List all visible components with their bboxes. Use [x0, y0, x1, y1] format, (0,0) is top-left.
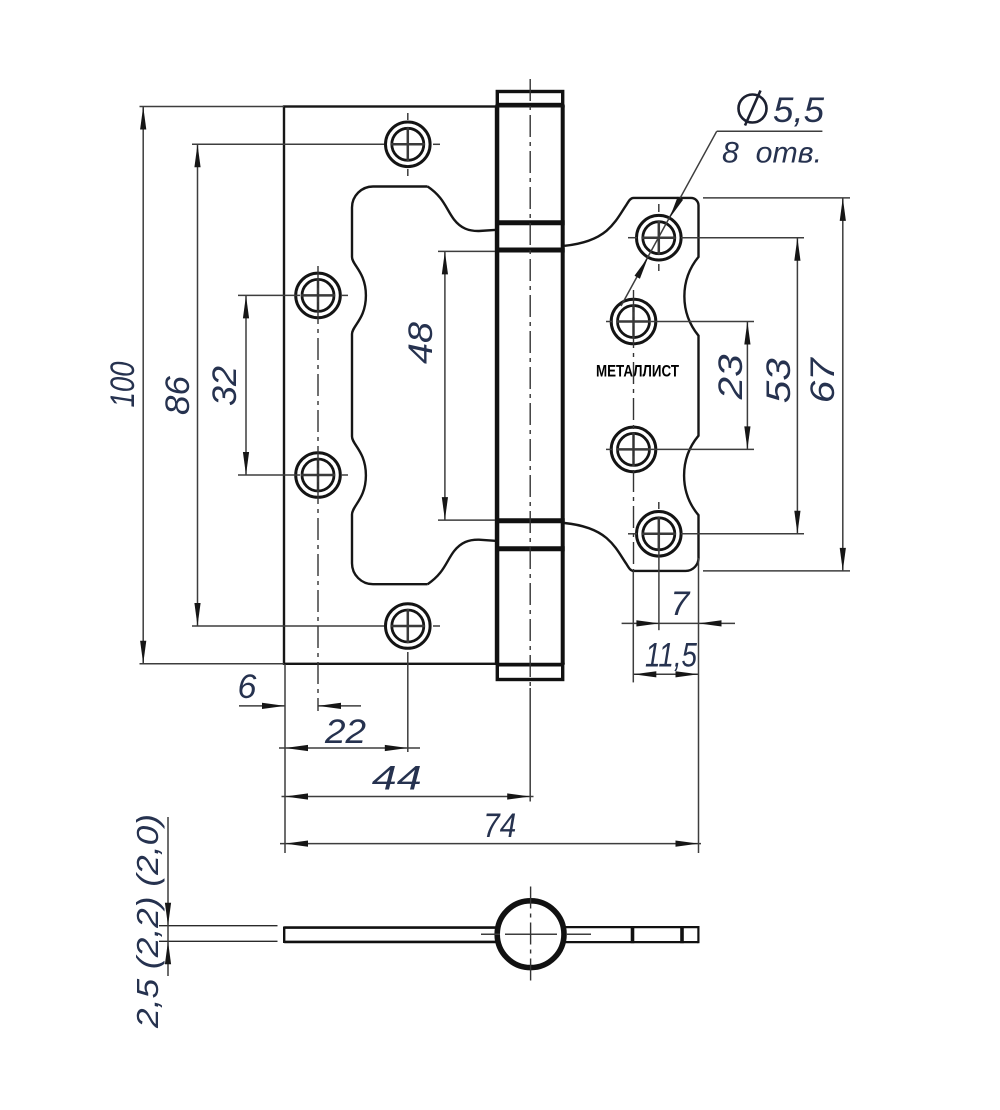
dimension 22 — [279, 713, 420, 751]
leader diameter callout — [621, 91, 825, 307]
centerline hole H4 horizontal dot — [433, 625, 440, 627]
dimension 32 — [206, 295, 300, 475]
svg-text:5,5: 5,5 — [773, 91, 825, 130]
svg-text:86: 86 — [159, 376, 197, 415]
dimension 7 — [622, 534, 735, 630]
centerline hole H7 horizontal dot — [606, 448, 613, 450]
svg-text:22: 22 — [324, 713, 366, 751]
hole H6 right leaf upper-middle — [611, 299, 656, 344]
svg-text:74: 74 — [483, 807, 516, 845]
barrel knuckle band 4 — [495, 546, 564, 551]
centerline hole H3 horizontal dot — [341, 474, 348, 476]
svg-text:67: 67 — [804, 357, 842, 403]
svg-text:11,5: 11,5 — [645, 637, 697, 675]
extension line hole H4 centerline — [407, 652, 409, 752]
svg-text:МЕТАЛЛИСТ: МЕТАЛЛИСТ — [596, 362, 679, 381]
svg-text:44: 44 — [372, 760, 422, 798]
centerline hole H2 horizontal dot — [341, 294, 348, 296]
left leaf cutout — [352, 187, 497, 585]
dimension 74 — [280, 807, 701, 847]
svg-text:53: 53 — [760, 358, 798, 403]
brand text METALLIST — [596, 362, 679, 381]
hole H8 right leaf bottom — [637, 512, 682, 557]
hole H3 left leaf lower — [296, 453, 341, 498]
dimension 48 — [402, 251, 495, 520]
centerline hole H5 horizontal dash — [628, 237, 637, 239]
hole H1 top-left leaf — [386, 122, 431, 167]
barrel bottom thin line (plate bottom level) — [495, 663, 564, 665]
svg-text:100: 100 — [104, 361, 142, 407]
dimension 100 — [104, 107, 284, 664]
barrel knuckle band 3 — [495, 518, 564, 523]
barrel knuckle band 2 — [495, 248, 564, 253]
left leaf outline — [284, 107, 496, 664]
dimension 6 — [238, 668, 361, 709]
svg-text:48: 48 — [402, 322, 440, 364]
dimension 53 — [681, 238, 804, 534]
barrel knuckle band 1 — [495, 220, 564, 225]
dimension 23 — [651, 322, 754, 450]
centerline hole H1 vertical — [407, 113, 409, 120]
barrel bottom cap — [497, 665, 562, 680]
centerline hole H5 vertical — [658, 204, 660, 212]
dimension 86 — [159, 144, 384, 626]
centerline holes H2-H3 vertical — [317, 266, 319, 711]
svg-text:7: 7 — [671, 585, 691, 623]
barrel centerline — [529, 79, 531, 690]
dimension 67 — [703, 198, 850, 571]
hinge barrel — [495, 79, 564, 690]
extension line right leaf edge — [698, 558, 700, 853]
side view leaf bar — [284, 927, 500, 944]
barrel left edge — [495, 105, 499, 665]
centerline hole H8 horizontal dash — [628, 533, 637, 535]
extension line barrel centerline — [529, 688, 531, 802]
dimension 2,5 (2,2) (2,0) — [130, 814, 171, 1029]
svg-text:23: 23 — [712, 354, 750, 400]
side view thin leaf bottom line — [159, 940, 278, 942]
centerline hole H6 horizontal dot — [606, 321, 613, 323]
barrel top cap — [497, 92, 562, 105]
centerline hole H8 vertical — [658, 502, 660, 509]
barrel top thin line (plate top level) — [495, 106, 564, 108]
side view barrel circle — [481, 887, 591, 982]
svg-text:32: 32 — [206, 366, 244, 406]
hole H7 right leaf lower-middle — [611, 427, 656, 472]
dimension 11,5 — [633, 572, 698, 682]
barrel right edge — [561, 105, 565, 665]
svg-text:8 отв.: 8 отв. — [722, 137, 822, 170]
hole H5 right leaf top — [637, 215, 682, 260]
side view thin leaf top line — [159, 925, 278, 927]
right leaf outline — [565, 198, 699, 571]
extension line left edge bottom — [284, 664, 286, 853]
hole H2 left leaf upper — [296, 273, 341, 318]
svg-text:6: 6 — [238, 668, 257, 706]
centerline hole H1 horizontal dot — [433, 143, 440, 145]
svg-text:2,5 (2,2) (2,0): 2,5 (2,2) (2,0) — [130, 814, 165, 1029]
centerline holes H6-H7 vertical — [633, 290, 635, 572]
hole H4 bottom-left leaf — [386, 604, 431, 649]
side view right leaf bar — [562, 926, 698, 943]
dimension 44 — [282, 760, 534, 800]
